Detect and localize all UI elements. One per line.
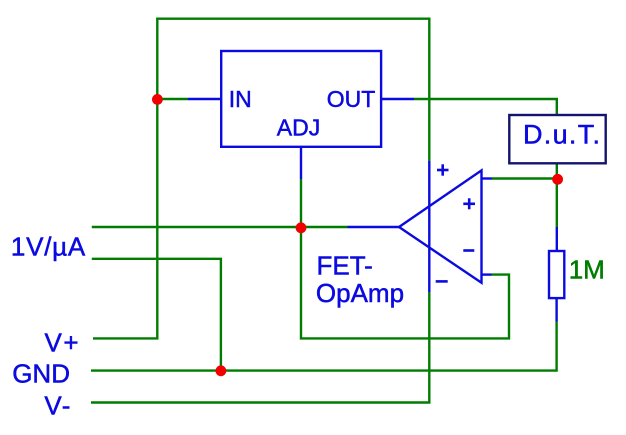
svg-text:1M: 1M (569, 255, 605, 285)
svg-text:FET-: FET- (317, 251, 373, 281)
svg-text:V+: V+ (45, 328, 81, 358)
svg-text:1V/µA: 1V/µA (11, 232, 86, 262)
svg-text:OpAmp: OpAmp (316, 278, 404, 308)
svg-text:GND: GND (12, 359, 70, 389)
svg-text:D.u.T.: D.u.T. (523, 120, 601, 150)
svg-text:V-: V- (44, 391, 72, 421)
svg-text:ADJ: ADJ (277, 114, 320, 140)
svg-text:IN: IN (229, 86, 252, 112)
svg-text:OUT: OUT (327, 86, 376, 112)
